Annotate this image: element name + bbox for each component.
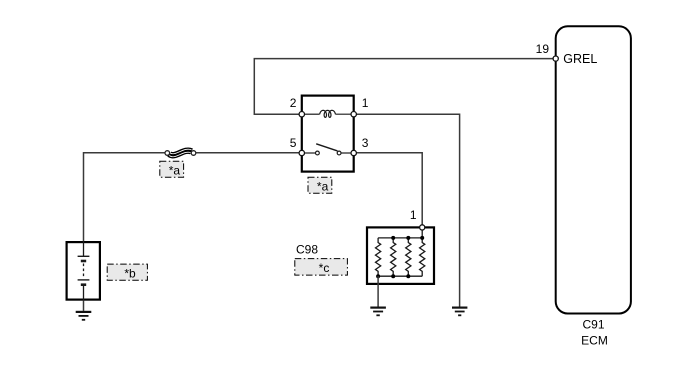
svg-text:19: 19 (536, 42, 550, 56)
relay coil winding (304, 110, 352, 117)
wire: fusible link to relay pin 5 (196, 152, 300, 154)
wire: relay pin 3 right then down to C98 terminal 1 (356, 153, 422, 225)
C98 terminal 1 (420, 225, 425, 230)
relay switch (contacts and blade) (304, 144, 352, 155)
relay box (302, 96, 354, 172)
label box *c (C98) (295, 259, 348, 276)
fusible link *a (two terminals with wavy link) (165, 149, 196, 157)
wire: battery positive up and right to fusible link (84, 153, 166, 242)
svg-text:3: 3 (362, 136, 369, 150)
C98 resistor pack box (367, 227, 434, 284)
svg-text:1: 1 (410, 208, 417, 222)
label box *a (below fusible link) (160, 161, 184, 177)
wire: relay pin 2 left, up, right to ECM terminal 19 (254, 59, 553, 115)
svg-text:2: 2 (290, 96, 297, 110)
wire: battery negative to ground (83, 301, 85, 311)
svg-text:5: 5 (290, 136, 297, 150)
relay terminal pin 5 (299, 150, 304, 155)
svg-text:*b: *b (124, 266, 136, 280)
svg-text:ECM: ECM (581, 334, 608, 348)
svg-text:GREL: GREL (563, 52, 597, 66)
wire: C98 bottom bus to ground (377, 276, 379, 306)
relay terminal pin 2 (299, 112, 304, 117)
svg-text:1: 1 (362, 96, 369, 110)
ECM terminal 19 (553, 56, 558, 61)
battery box (67, 242, 100, 300)
svg-text:*a: *a (317, 179, 329, 193)
label box *b (battery) (107, 264, 147, 280)
label box *a (below relay) (308, 177, 332, 193)
ground (C98) (370, 308, 386, 316)
ground (right, under relay pin 1 wire) (452, 308, 467, 316)
battery cells (78, 241, 90, 301)
svg-text:C91: C91 (582, 317, 604, 331)
ground (battery) (76, 312, 92, 320)
svg-text:*a: *a (169, 163, 181, 177)
ECM box (556, 26, 631, 313)
svg-text:C98: C98 (296, 242, 318, 256)
C98 junction dots (376, 236, 424, 278)
svg-text:*c: *c (319, 261, 330, 275)
relay terminal pin 3 (351, 150, 356, 155)
relay terminal pin 1 (351, 112, 356, 117)
wire: relay pin 1 right then down to ground (356, 114, 459, 306)
C98 internal resistors (376, 230, 425, 276)
